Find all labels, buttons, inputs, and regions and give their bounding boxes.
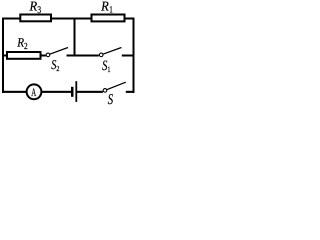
svg-text:R: R — [16, 36, 24, 50]
svg-text:2: 2 — [56, 64, 59, 73]
svg-text:R: R — [29, 0, 38, 14]
svg-text:S: S — [108, 92, 114, 106]
svg-text:S: S — [102, 58, 107, 74]
svg-text:A: A — [31, 87, 36, 99]
svg-text:R: R — [100, 0, 109, 14]
svg-text:3: 3 — [37, 5, 41, 16]
svg-text:2: 2 — [24, 41, 28, 51]
svg-text:1: 1 — [107, 65, 110, 74]
svg-text:1: 1 — [109, 5, 113, 16]
